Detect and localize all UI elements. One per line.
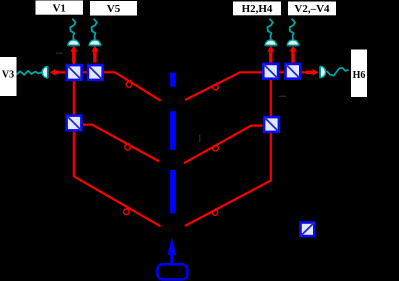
detector D3 dome bbox=[265, 40, 276, 46]
svg-text:H2,H4: H2,H4 bbox=[242, 3, 273, 15]
faint dash mark right bbox=[279, 96, 286, 97]
PBS U3 left row2 beamsplitter bbox=[67, 116, 82, 131]
PBS U1 left (top-left beamsplitter) bbox=[67, 65, 82, 80]
arrow into detector D6 (right, pointing right) bbox=[306, 69, 318, 76]
central dashed delay line segment 1 bbox=[170, 72, 176, 86]
label box V3 bbox=[0, 57, 17, 96]
arrow into detector D3 bbox=[267, 45, 274, 62]
label box V5 bbox=[90, 1, 137, 16]
wire: left beam row2 from PBS2L to node C2 bbox=[83, 125, 159, 162]
central dashed delay line segment 3 bbox=[170, 170, 176, 214]
fiber from detector D2 to label V5 bbox=[92, 19, 97, 40]
fiber from label V3 to detector D5 bbox=[17, 71, 43, 75]
phase loop R3 on right row3 beam bbox=[212, 208, 218, 215]
svg-text:V5: V5 bbox=[107, 3, 121, 15]
wire: left vertical beam through PBS1L and PBS2L down to node C3 bbox=[74, 62, 161, 226]
phase loop R2 on right row2 beam bbox=[213, 144, 219, 151]
detector D5 dome (left side, bulge left) bbox=[42, 67, 48, 78]
central dashed delay line segment 2 bbox=[170, 111, 176, 150]
PBS legend cube (bottom right, mirrored diagonal) bbox=[301, 223, 315, 237]
PBS U6 right row2 beamsplitter bbox=[264, 117, 279, 132]
detector D4 dome bbox=[287, 40, 298, 46]
PBS U5 right (second top-right beamsplitter) bbox=[286, 64, 301, 79]
arrow into detector D5 (left, pointing left) bbox=[50, 69, 59, 76]
faint dash mark left bbox=[56, 53, 63, 54]
phase loop L1 on left row1 beam bbox=[126, 80, 132, 87]
wire: right beam row2 from PBS2R to node C2 bbox=[184, 126, 263, 164]
arrow into detector D2 bbox=[91, 45, 98, 62]
fiber from detector D6 to label H6 bbox=[327, 68, 349, 76]
label box V1 bbox=[36, 1, 84, 15]
fiber from detector D4 to label V2,-V4 bbox=[290, 19, 295, 40]
label box H2,H4 bbox=[233, 2, 281, 16]
PBS U2 left (second top-left beamsplitter) bbox=[88, 65, 103, 80]
wire: right vertical beam through PBS1R and PBS2R down to node C3 bbox=[185, 62, 271, 226]
phase loop L3 on left row3 beam bbox=[124, 207, 130, 214]
detector D2 dome bbox=[89, 40, 100, 46]
label box H6 bbox=[351, 50, 367, 98]
fiber from detector D1 to label V1 bbox=[70, 19, 75, 40]
wire: left beam row1 horizontal + diagonal to node C1 bbox=[58, 72, 161, 100]
svg-text:V1: V1 bbox=[52, 2, 65, 14]
arrow into detector D4 bbox=[290, 45, 297, 62]
faint vertical tick mark bbox=[199, 135, 200, 142]
source arrow (blue, from source box up to node C3) bbox=[167, 237, 176, 264]
detector D6 dome (right side, bulge right) bbox=[320, 66, 326, 77]
phase loop L2 on left row2 beam bbox=[125, 143, 131, 150]
svg-text:H6: H6 bbox=[353, 70, 366, 81]
detector D1 dome bbox=[68, 40, 79, 46]
PBS U4 right (top-right beamsplitter) bbox=[263, 64, 278, 79]
wire: right beam row1 horizontal + diagonal to node C1 bbox=[185, 72, 306, 100]
source box (EPR source) bbox=[157, 264, 187, 279]
fiber from detector D3 to label H2,H4 bbox=[267, 19, 272, 40]
phase loop R1 on right row1 beam bbox=[213, 83, 219, 90]
svg-text:V3: V3 bbox=[2, 70, 14, 81]
svg-text:V2,–V4: V2,–V4 bbox=[294, 3, 330, 15]
label box V2,-V4 bbox=[288, 2, 336, 16]
arrow into detector D1 bbox=[70, 45, 77, 62]
